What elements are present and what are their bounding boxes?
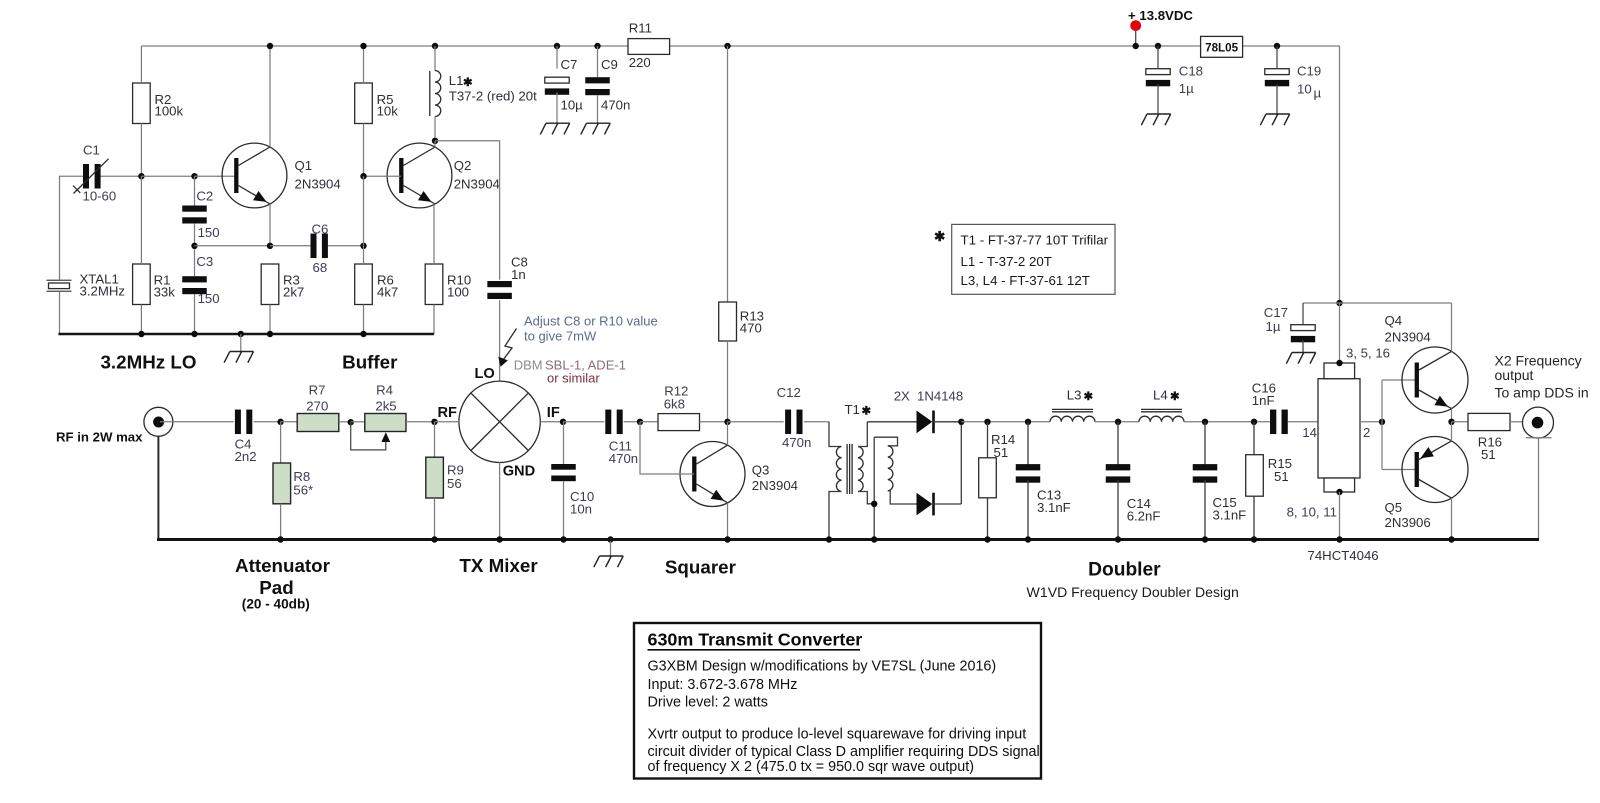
wire: Q3 emitter to ground — [727, 503, 729, 540]
label C9 470n — [601, 57, 630, 113]
capacitor C2 — [182, 176, 207, 246]
svg-text:✱: ✱ — [1084, 391, 1094, 403]
label R9 56 — [447, 463, 464, 492]
svg-text:2X: 2X — [894, 388, 910, 403]
wire: Q5 emitter to output — [1451, 422, 1453, 441]
svg-text:2n2: 2n2 — [235, 449, 257, 464]
inductor L3 — [1050, 409, 1095, 421]
inductor L4 — [1139, 409, 1184, 421]
svg-text:2N3904: 2N3904 — [454, 177, 500, 192]
wire: doubler bus — [961, 421, 1050, 423]
svg-text:C2: C2 — [196, 189, 213, 204]
svg-text:56: 56 — [447, 476, 462, 491]
svg-text:8, 10, 11: 8, 10, 11 — [1287, 505, 1337, 520]
svg-text:RF: RF — [438, 405, 458, 421]
wire: +12V top rail left segment — [141, 45, 628, 47]
label R1 33k — [154, 273, 176, 300]
svg-text:470n: 470n — [782, 435, 811, 450]
label R3 2k7 — [283, 273, 304, 300]
label C15 3.1nF — [1213, 495, 1247, 522]
label Q5 2N3906 — [1385, 500, 1431, 530]
label R10 100 — [447, 273, 471, 300]
label T1* — [845, 402, 872, 418]
svg-text:100k: 100k — [155, 103, 184, 118]
resistor R3 — [261, 264, 279, 334]
label C16 1nF — [1252, 381, 1276, 408]
label R13 470 — [740, 309, 764, 336]
wire: Q4 collector — [1451, 303, 1453, 351]
label Q3 2N3904 — [752, 463, 798, 493]
capacitor C3 — [182, 246, 207, 334]
svg-text:T37-2 (red) 20t: T37-2 (red) 20t — [449, 89, 537, 104]
label C4 2n2 — [235, 436, 257, 464]
svg-text:Q5: Q5 — [1385, 500, 1403, 515]
resistor R13 — [719, 43, 737, 425]
label C2 150 — [196, 189, 219, 240]
ground symbol (squarer rail) — [594, 536, 623, 567]
label C11 470n — [609, 438, 638, 466]
svg-text:33k: 33k — [154, 284, 176, 299]
svg-text:of frequency X 2 (475.0 tx = 9: of frequency X 2 (475.0 tx = 950.0 sqr w… — [648, 759, 975, 775]
wire: Q3 base drive — [640, 422, 694, 474]
resistor R9 — [426, 419, 444, 540]
capacitor C7 — [545, 43, 569, 123]
capacitor C12 — [728, 410, 830, 435]
wire: +5V row to Q4 — [1303, 302, 1452, 304]
svg-text:To amp DDS in: To amp DDS in — [1495, 385, 1589, 401]
svg-text:C17: C17 — [1264, 305, 1288, 320]
connector X2 output — [1523, 407, 1554, 539]
svg-text:Attenuator: Attenuator — [235, 555, 331, 576]
capacitor C19 — [1265, 43, 1289, 114]
diode D1 1N4148 — [917, 411, 962, 434]
svg-text:G3XBM Design w/modifications b: G3XBM Design w/modifications by VE7SL (J… — [648, 658, 997, 674]
label C13 3.1nF — [1037, 488, 1071, 515]
svg-text:C7: C7 — [561, 57, 578, 72]
connector RF input — [144, 407, 234, 436]
label R7 270 — [306, 382, 328, 413]
svg-text:51: 51 — [1274, 469, 1289, 484]
ground rail (LO section) — [58, 331, 434, 337]
svg-text:10µ: 10µ — [561, 98, 584, 113]
ground (C17) — [1286, 353, 1315, 364]
svg-text:470: 470 — [740, 321, 762, 336]
label R14 51 — [991, 432, 1015, 460]
label Q4 2N3904 — [1385, 313, 1431, 344]
svg-text:L3, L4 - FT-37-61 12T: L3, L4 - FT-37-61 12T — [961, 273, 1090, 288]
svg-text:R11: R11 — [629, 20, 652, 35]
label C12 470n — [777, 385, 812, 450]
svg-text:Pad: Pad — [259, 577, 293, 598]
node IF junction / capacitor C10 — [551, 419, 576, 540]
svg-text:IF: IF — [547, 405, 560, 421]
svg-text:6.2nF: 6.2nF — [1127, 509, 1161, 524]
wire: LO drive to C8 — [435, 141, 500, 280]
label C19 10u — [1297, 63, 1322, 100]
svg-text:270: 270 — [306, 398, 328, 413]
svg-text:Q2: Q2 — [454, 158, 472, 173]
svg-text:✱: ✱ — [934, 229, 946, 244]
capacitor C17 — [1291, 303, 1315, 353]
transformer T1 secondary A — [858, 422, 874, 504]
svg-text:C3: C3 — [196, 254, 213, 269]
transistor Q2 — [387, 143, 452, 208]
wire: Q1 emitter down — [269, 204, 271, 246]
svg-text:Adjust C8 or R10 value: Adjust C8 or R10 value — [524, 314, 658, 329]
diode D2 1N4148 — [917, 493, 962, 516]
svg-text:L1: L1 — [449, 73, 464, 88]
svg-text:DBM: DBM — [514, 357, 543, 372]
svg-text:1nF: 1nF — [1252, 393, 1275, 408]
wire: Q2 base row — [360, 173, 401, 246]
wire: D2 cathode up to output node — [958, 419, 964, 504]
wire: input ground drop — [157, 436, 159, 539]
svg-text:+ 13.8VDC: + 13.8VDC — [1128, 8, 1193, 23]
resistor R7 — [281, 414, 354, 432]
capacitor C18 — [1146, 43, 1170, 114]
label Attenuator Pad (20 - 40db) — [235, 555, 331, 612]
capacitor C15 — [1193, 419, 1218, 540]
svg-text:L4: L4 — [1153, 388, 1168, 403]
svg-text:to give 7mW: to give 7mW — [524, 328, 597, 343]
capacitor C13 — [1016, 419, 1041, 540]
wire: LO bias row y=176 — [101, 173, 237, 179]
transformer T1 core — [847, 444, 852, 494]
ground rail (main) — [157, 536, 1539, 542]
transistor Q5 2N3906 (PNP) — [1402, 437, 1468, 503]
svg-text:Doubler: Doubler — [1088, 559, 1161, 580]
resistor R8 — [273, 422, 291, 540]
inductor L1 — [430, 43, 441, 144]
wire: L4 to C16 — [1184, 421, 1270, 423]
capacitor C9 — [585, 43, 610, 123]
wire: T1 secondary A to D1 — [867, 421, 916, 423]
label XTAL1 3.2MHz — [80, 272, 125, 299]
svg-text:R7: R7 — [309, 382, 326, 397]
svg-text:W1VD Frequency Doubler Design: W1VD Frequency Doubler Design — [1027, 584, 1239, 600]
svg-text:T1 - FT-37-77 10T Trifilar: T1 - FT-37-77 10T Trifilar — [961, 233, 1109, 248]
label R4 2k5 — [375, 382, 396, 413]
resistor R6 — [355, 246, 373, 334]
svg-text:100: 100 — [447, 284, 469, 299]
label C17 1u — [1264, 305, 1288, 334]
svg-text:µ: µ — [1314, 85, 1322, 100]
resistor R1 — [133, 176, 151, 334]
svg-text:C12: C12 — [777, 385, 801, 400]
capacitor C1 (trimmer) — [60, 159, 109, 280]
svg-text:2: 2 — [1363, 425, 1370, 440]
svg-text:L3: L3 — [1067, 388, 1082, 403]
label C14 6.2nF — [1127, 496, 1161, 524]
note box T1/L1/L3 winding data — [952, 224, 1115, 294]
svg-text:Squarer: Squarer — [665, 557, 737, 578]
resistor R12 — [640, 414, 728, 431]
svg-text:74HCT4046: 74HCT4046 — [1308, 548, 1379, 563]
capacitor C8 — [487, 281, 512, 381]
transistor Q4 — [1402, 347, 1468, 413]
resistor R11 — [628, 39, 670, 55]
svg-text:LO: LO — [475, 366, 495, 382]
svg-text:56*: 56* — [293, 482, 313, 497]
capacitor C6 — [311, 234, 328, 258]
svg-text:Buffer: Buffer — [342, 351, 398, 372]
label R5 10k — [377, 92, 399, 119]
label L4* — [1153, 388, 1180, 404]
wire: Q2 collector to L1 — [434, 141, 436, 147]
svg-text:✱: ✱ — [463, 77, 473, 89]
transformer T1 primary — [829, 422, 842, 540]
svg-text:1µ: 1µ — [1266, 319, 1281, 334]
label C18 1u — [1179, 63, 1203, 96]
node: +13.8VDC input — [1130, 20, 1141, 49]
regulator 78L05 — [1201, 36, 1243, 57]
svg-text:RF in 2W max: RF in 2W max — [56, 429, 143, 444]
svg-text:Input: 3.672-3.678 MHz: Input: 3.672-3.678 MHz — [648, 677, 798, 693]
svg-text:78L05: 78L05 — [1205, 41, 1238, 54]
svg-text:C1: C1 — [83, 142, 100, 157]
wire: C2/C3-C6 row y=246 — [191, 243, 366, 249]
svg-text:3.2MHz: 3.2MHz — [80, 283, 125, 298]
wire: T1 center tap to ground — [871, 437, 877, 539]
label L3* — [1067, 388, 1094, 404]
capacitor C16 — [1270, 410, 1318, 435]
svg-text:4k7: 4k7 — [377, 284, 398, 299]
svg-text:3.1nF: 3.1nF — [1213, 508, 1247, 523]
wire: +12V top rail right segment (after R11) — [670, 46, 1340, 303]
resistor R5 — [355, 43, 373, 176]
svg-text:1N4148: 1N4148 — [917, 388, 963, 403]
ground (C7) — [540, 123, 569, 134]
ground (C19) — [1260, 114, 1289, 125]
resistor R15 — [1246, 419, 1264, 540]
svg-text:C18: C18 — [1179, 63, 1203, 78]
svg-text:14: 14 — [1302, 425, 1317, 440]
svg-text:2k7: 2k7 — [283, 284, 304, 299]
svg-text:1n: 1n — [511, 267, 526, 282]
svg-text:51: 51 — [1481, 447, 1496, 462]
label X2 Frequency output To amp DDS in — [1495, 352, 1589, 400]
IC U2 74HCT4046 — [1318, 363, 1360, 492]
svg-text:T1: T1 — [845, 402, 860, 417]
wire: IC bottom to ground — [1336, 489, 1342, 540]
svg-text:Q4: Q4 — [1385, 313, 1403, 328]
ground symbol (LO) — [224, 334, 253, 363]
svg-text:150: 150 — [198, 225, 220, 240]
resistor R10 — [425, 204, 443, 334]
svg-text:10n: 10n — [570, 502, 592, 517]
svg-text:3.2MHz LO: 3.2MHz LO — [100, 351, 196, 372]
svg-text:GND: GND — [503, 463, 535, 479]
svg-text:Q3: Q3 — [752, 463, 770, 478]
svg-text:150: 150 — [198, 291, 220, 306]
title box — [634, 623, 1041, 779]
svg-text:10-60: 10-60 — [83, 188, 117, 203]
svg-text:Q1: Q1 — [295, 158, 313, 173]
svg-text:✱: ✱ — [862, 406, 872, 418]
svg-text:Xvrtr output to produce lo-lev: Xvrtr output to produce lo-level squarew… — [648, 727, 1027, 743]
label C8 1n — [511, 255, 528, 283]
svg-text:L1 - T-37-2 20T: L1 - T-37-2 20T — [961, 254, 1052, 269]
svg-text:(20 - 40db): (20 - 40db) — [242, 596, 310, 611]
label C6 68 — [312, 222, 329, 276]
svg-text:1µ: 1µ — [1179, 81, 1194, 96]
label C1 10-60 — [83, 142, 117, 203]
capacitor C14 — [1106, 419, 1131, 540]
callout: Adjust C8 or R10 value to give 7mW — [498, 314, 657, 367]
svg-text:TX Mixer: TX Mixer — [459, 555, 538, 576]
label Q2 2N3904 — [454, 158, 500, 191]
resistor R4 (pot) — [351, 414, 435, 450]
transistor Q3 — [680, 442, 745, 507]
label R12 6k8 — [664, 384, 689, 412]
svg-text:C6: C6 — [312, 222, 329, 237]
svg-text:3.1nF: 3.1nF — [1037, 500, 1071, 515]
svg-text:470n: 470n — [609, 451, 638, 466]
svg-text:C9: C9 — [601, 57, 618, 72]
svg-text:220: 220 — [629, 55, 651, 70]
label C3 150 — [196, 254, 219, 306]
svg-text:2N3904: 2N3904 — [1385, 329, 1431, 344]
svg-text:✱: ✱ — [1170, 391, 1180, 403]
svg-text:3, 5, 16: 3, 5, 16 — [1346, 346, 1390, 361]
svg-text:C19: C19 — [1297, 63, 1321, 78]
capacitor C11 — [563, 410, 643, 435]
svg-text:R4: R4 — [376, 382, 393, 397]
wire: Q5 collector to ground — [1451, 498, 1453, 539]
transistor Q1 — [222, 143, 287, 208]
label L1 T37-2 — [449, 73, 537, 104]
label R16 51 — [1478, 435, 1502, 462]
svg-text:2N3904: 2N3904 — [752, 478, 798, 493]
wire: L3-L4 — [1095, 421, 1139, 423]
wire: IC top feed — [1336, 300, 1342, 366]
ground (C9) — [581, 123, 610, 134]
resistor R2 — [133, 46, 151, 176]
resistor R14 — [979, 419, 997, 540]
svg-text:51: 51 — [994, 445, 1009, 460]
label 2X 1N4148 — [894, 388, 964, 403]
svg-text:circuit divider of typical Cla: circuit divider of typical Class D ampli… — [648, 744, 1040, 760]
resistor R16 — [1452, 413, 1524, 430]
label C7 10u — [561, 57, 584, 113]
svg-text:or similar: or similar — [547, 371, 600, 386]
mixer U1 (DBM) — [435, 381, 564, 539]
crystal XTAL1 — [47, 280, 72, 334]
label R2 100k — [155, 92, 184, 119]
svg-text:10: 10 — [1297, 81, 1312, 96]
svg-text:2N3904: 2N3904 — [295, 177, 341, 192]
label R6 4k7 — [377, 273, 398, 300]
transformer T1 secondary B — [874, 437, 916, 504]
label Q1 2N3904 — [295, 158, 341, 191]
svg-text:10k: 10k — [377, 103, 399, 118]
wire: pin2 to bases — [1360, 380, 1419, 470]
svg-text:630m Transmit Converter: 630m Transmit Converter — [648, 629, 863, 649]
label C10 10n — [570, 489, 594, 517]
svg-text:68: 68 — [313, 260, 328, 275]
wire: Q3 collector — [727, 422, 729, 445]
label DBM SBL-1, ADE-1 or similar — [514, 357, 626, 385]
svg-text:Drive level: 2 watts: Drive level: 2 watts — [648, 695, 768, 711]
wire: Q1 collector to rail — [267, 43, 273, 147]
capacitor C4 — [235, 410, 284, 435]
svg-text:output: output — [1495, 367, 1534, 383]
svg-text:470n: 470n — [601, 98, 630, 113]
label R15 51 — [1268, 456, 1292, 484]
svg-text:6k8: 6k8 — [664, 397, 685, 412]
label R11 220 — [629, 20, 652, 69]
wire: Q4 emitter to output — [1448, 409, 1454, 425]
svg-text:2k5: 2k5 — [375, 398, 396, 413]
label R8 56* — [293, 469, 313, 498]
ground (C18) — [1141, 114, 1170, 125]
svg-text:2N3906: 2N3906 — [1385, 515, 1431, 530]
